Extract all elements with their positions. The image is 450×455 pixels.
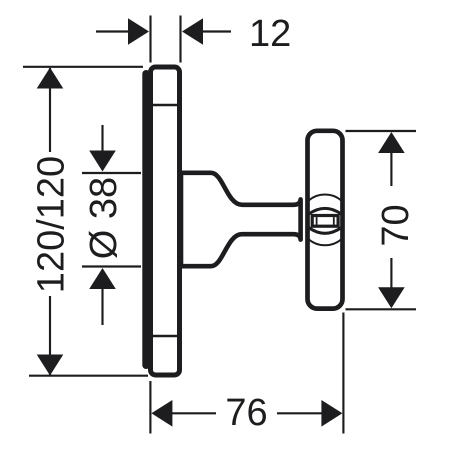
svg-text:12: 12 [249,13,291,55]
svg-text:76: 76 [225,392,267,434]
svg-text:Ø 38: Ø 38 [83,177,125,259]
svg-text:70: 70 [375,204,417,246]
svg-text:120/120: 120/120 [31,156,73,293]
